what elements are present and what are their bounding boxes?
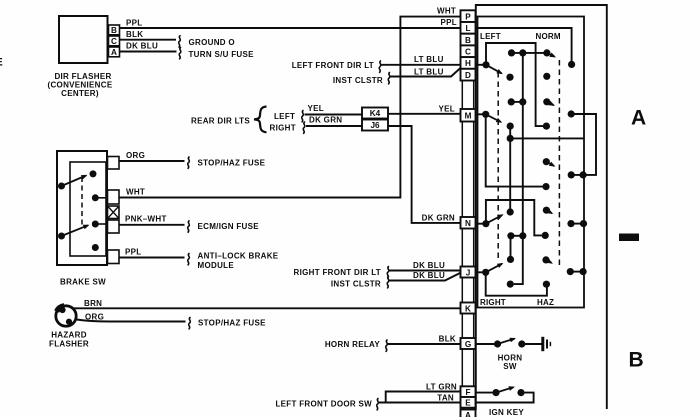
connector pin K [461, 303, 476, 314]
wire PNK-WHT to ecm/ign fuse [119, 224, 185, 226]
svg-text:YEL: YEL [308, 104, 324, 113]
svg-text:CENTER): CENTER) [61, 89, 99, 98]
switch arm haz lower [546, 260, 552, 263]
wire M pivot drop to norm low contact [486, 114, 543, 186]
brake switch lower pivot [58, 233, 65, 240]
label HORN SW [498, 354, 523, 372]
svg-text:J6: J6 [370, 121, 380, 130]
isolated contact norm [543, 73, 550, 80]
svg-text:F: F [465, 388, 470, 397]
squiggle rear left [302, 111, 304, 122]
wire F to ign key switch [476, 392, 493, 394]
squiggle turn fuse [179, 48, 181, 59]
svg-text:PPL: PPL [125, 248, 141, 257]
svg-text:STOP/HAZ FUSE: STOP/HAZ FUSE [198, 319, 266, 328]
wire PPL from brake to anti-lock module [119, 257, 185, 259]
switch arm J [486, 264, 502, 273]
wire LT GRN to connector F with tie riser [386, 392, 461, 403]
svg-text:HAZ: HAZ [537, 298, 554, 307]
wire BLK from pin C to ground squiggle [120, 39, 177, 41]
svg-text:B: B [111, 26, 117, 35]
wire BLK G to horn switch [476, 343, 495, 345]
svg-text:WHT: WHT [437, 7, 456, 16]
squiggle left front dir [379, 61, 381, 72]
svg-text:DK BLU: DK BLU [413, 261, 445, 270]
svg-text:A: A [111, 48, 117, 57]
splice K4 [362, 108, 388, 119]
squiggle ground [179, 36, 181, 47]
svg-text:BRN: BRN [84, 299, 102, 308]
svg-text:INST CLSTR: INST CLSTR [331, 280, 381, 289]
svg-text:ANTI–LOCK BRAKE: ANTI–LOCK BRAKE [198, 252, 279, 261]
svg-text:DK BLU: DK BLU [413, 271, 445, 280]
wire M into switch [476, 113, 486, 115]
svg-text:SW: SW [503, 362, 517, 371]
brake pin cell 1 [108, 157, 120, 170]
svg-text:N: N [465, 219, 471, 228]
wire WHT from brake to connector P riser [119, 17, 461, 198]
pivot mid right [543, 158, 550, 165]
wire ORG from hazard flasher to stop/haz fuse [77, 320, 186, 322]
brake dashed gang link [81, 177, 83, 227]
pivot norm lower [543, 98, 550, 105]
squiggle anti-lock [188, 254, 190, 265]
svg-text:LEFT: LEFT [274, 112, 295, 121]
wire N into switch [476, 223, 486, 225]
svg-text:DK BLU: DK BLU [126, 42, 158, 51]
wire TAN to connector E [379, 402, 461, 404]
ground symbol [543, 337, 551, 351]
svg-text:LT BLU: LT BLU [414, 68, 444, 77]
switch arm norm lower [547, 102, 554, 105]
wire J bottom loop [486, 272, 547, 295]
brake sw outer box [57, 151, 107, 265]
brake contact dot WHT [92, 194, 99, 201]
svg-text:YEL: YEL [439, 105, 455, 114]
brake pin cell 2 [108, 190, 120, 204]
contact dot norm mid [543, 123, 550, 130]
connector pin M [461, 109, 476, 122]
switch arm N [486, 215, 502, 224]
wire DK GRN into J6 [306, 125, 362, 127]
svg-text:K: K [465, 304, 471, 313]
svg-text:WHT: WHT [126, 188, 145, 197]
wire YEL into K4 [305, 114, 363, 116]
dir flasher (convenience center) box [59, 16, 108, 63]
brake contact dot PPL [92, 244, 99, 251]
contact dot right stub [507, 281, 514, 288]
pivot norm top [543, 49, 550, 56]
wire ORG from brake to stop/haz fuse [119, 160, 185, 162]
svg-text:H: H [465, 59, 471, 68]
svg-text:K4: K4 [370, 109, 381, 118]
contact pair haz lower on bus [567, 268, 587, 275]
svg-text:HAZARD: HAZARD [51, 331, 87, 340]
connector pin L [461, 22, 476, 34]
wire DK BLU 2 to connector J [390, 273, 462, 281]
svg-text:LT BLU: LT BLU [414, 55, 444, 64]
dashed gang left column [497, 72, 499, 260]
vertical rung to J contact [510, 236, 512, 260]
svg-text:PPL: PPL [441, 18, 457, 27]
svg-text:NORM: NORM [536, 32, 561, 41]
wire ign key return to E [476, 393, 534, 403]
wire BRN from hazard flasher to connector K [74, 307, 461, 309]
squiggle inst clstr bottom [387, 277, 389, 288]
squiggle stop/haz 2 [189, 318, 191, 329]
svg-text:REAR DIR LTS: REAR DIR LTS [191, 117, 250, 126]
pivot M [482, 111, 489, 118]
svg-text:GROUND O: GROUND O [189, 38, 235, 47]
wire horn sw to ground [525, 343, 542, 345]
stub K to box [476, 307, 478, 309]
contact dot norm top [568, 61, 575, 68]
pin A [109, 47, 120, 57]
connector pin P [461, 10, 476, 22]
switch arm norm top [547, 53, 555, 57]
wire YEL from K4 to connector M [388, 113, 461, 115]
svg-text:ORG: ORG [126, 151, 145, 160]
pivot N [482, 220, 489, 227]
squiggle inst clstr top [388, 73, 390, 84]
svg-text:DK GRN: DK GRN [422, 214, 455, 223]
wire J into switch [476, 271, 486, 273]
svg-text:PPL: PPL [126, 19, 142, 28]
connector pin A (clipped at bottom) [461, 410, 476, 417]
label ANTI-LOCK BRAKE MODULE [198, 252, 279, 271]
svg-text:LEFT: LEFT [480, 32, 501, 41]
connector pin J [461, 267, 476, 278]
svg-text:RIGHT: RIGHT [480, 298, 506, 307]
wire LT BLU 2 to connector H [391, 68, 462, 77]
switch arm M [486, 114, 501, 122]
svg-text:BLK: BLK [439, 335, 456, 344]
pivot haz lower [542, 256, 549, 263]
svg-text:PNK–WHT: PNK–WHT [125, 215, 167, 224]
vertical from M contact to N contact [509, 126, 511, 212]
svg-text:C: C [465, 48, 471, 57]
svg-text:B: B [629, 349, 644, 372]
svg-text:DK GRN: DK GRN [309, 116, 342, 125]
squiggle horn relay [386, 340, 388, 351]
squiggle stop/haz [188, 157, 190, 168]
brake switch arm 1 [62, 176, 87, 187]
inner bus vertical [514, 53, 523, 284]
node junction mid [507, 135, 514, 142]
connector pin B [461, 34, 476, 46]
connector pin N [461, 217, 476, 229]
svg-text:E: E [465, 399, 471, 408]
wire L feed to norm top contact [476, 28, 572, 64]
svg-text:A: A [631, 107, 646, 130]
label DIR FLASHER (CONVENIENCE CENTER) [48, 72, 113, 98]
brake sw inner box [70, 162, 106, 256]
contact dot norm low [542, 183, 549, 190]
splice J6 [362, 120, 388, 131]
horn sw contact left [494, 340, 501, 347]
svg-text:G: G [465, 340, 471, 349]
contact dot N arm [507, 208, 514, 215]
svg-text:ECM/IGN FUSE: ECM/IGN FUSE [198, 222, 260, 231]
svg-text:E: E [0, 57, 3, 69]
contact dot J arm [507, 256, 514, 263]
switch arm haz upper [546, 210, 551, 213]
brake contact dot 2 [92, 221, 99, 228]
svg-text:IGN KEY: IGN KEY [489, 408, 524, 417]
right column rung low [507, 232, 526, 239]
contact dot J loop end [543, 281, 550, 288]
svg-text:RIGHT: RIGHT [270, 124, 296, 133]
contact dot norm lower [568, 110, 575, 117]
svg-text:BRAKE SW: BRAKE SW [60, 278, 106, 287]
svg-text:BLK: BLK [126, 30, 143, 39]
svg-text:ORG: ORG [85, 313, 104, 322]
contact dot haz feed [542, 232, 549, 239]
outer harness rectangle [476, 5, 607, 410]
switch arm H [486, 65, 502, 74]
contact pair haz upper on bus [567, 220, 587, 227]
connector pin H [461, 57, 476, 69]
connector strip rails [462, 11, 473, 417]
svg-text:L: L [465, 24, 470, 33]
squiggle rear right [303, 122, 305, 133]
brace for rear dir lts [254, 107, 267, 133]
pin B [109, 25, 120, 35]
svg-text:LT GRN: LT GRN [426, 383, 457, 392]
brake pin cell 4 [108, 220, 120, 233]
svg-text:D: D [465, 71, 471, 80]
ign key contact left [492, 389, 499, 396]
svg-text:INST CLSTR: INST CLSTR [333, 76, 383, 85]
pin C [109, 36, 120, 46]
brake pin cell 5 [108, 250, 120, 264]
connector pin F [461, 386, 476, 397]
hazard flasher [56, 306, 76, 326]
contact dot M arm [507, 123, 514, 130]
contact dot H arm target [506, 74, 513, 81]
connector pin G [461, 338, 476, 349]
dashed gang right column [558, 60, 560, 268]
wire DK GRN from J6 to connector N [388, 126, 461, 223]
squiggle right front dir [387, 267, 389, 278]
svg-text:TAN: TAN [437, 394, 454, 403]
squiggle ecm [188, 221, 190, 232]
brake contact dot 1 [90, 170, 97, 177]
switch arm mid right [546, 162, 554, 166]
svg-text:STOP/HAZ FUSE: STOP/HAZ FUSE [198, 159, 266, 168]
wire BLK to connector G [388, 343, 461, 345]
wire LT BLU 1 to connector H [382, 64, 461, 66]
wire junction to bus [510, 137, 584, 139]
brake contact WHT stub [95, 197, 107, 199]
ign key contact right [517, 389, 524, 396]
svg-text:TURN S/U FUSE: TURN S/U FUSE [189, 50, 255, 59]
horn sw contact right [518, 340, 525, 347]
svg-text:A: A [465, 411, 471, 417]
pivot J [482, 269, 489, 276]
page dash marker [619, 234, 639, 242]
svg-text:LEFT FRONT DIR LT: LEFT FRONT DIR LT [292, 61, 374, 70]
svg-text:MODULE: MODULE [198, 261, 235, 270]
wire H into switch [476, 64, 487, 66]
left column top rung [508, 49, 544, 56]
wire DK BLU 1 to connector J [390, 270, 461, 272]
connector pin E [461, 397, 476, 408]
brake contact 2 stub [95, 223, 107, 225]
horn sw arm [498, 339, 515, 344]
svg-text:RIGHT FRONT DIR LT: RIGHT FRONT DIR LT [294, 268, 381, 277]
brake switch arm 2 [62, 225, 89, 236]
wire N loop over to haz feed [486, 200, 542, 235]
svg-text:C: C [111, 37, 117, 46]
wire H hook up and over to norm contact [486, 43, 543, 126]
svg-text:FLASHER: FLASHER [49, 340, 89, 349]
brake switch contact upper pivot [58, 183, 65, 190]
node H junction [482, 61, 489, 68]
svg-text:HORN RELAY: HORN RELAY [325, 340, 381, 349]
label HAZARD FLASHER [49, 331, 89, 349]
svg-text:M: M [465, 112, 472, 121]
ign key arm [496, 387, 514, 392]
connector pin D [461, 69, 476, 81]
turn/hazard switch assembly box with P feed bus [478, 17, 585, 308]
svg-text:B: B [465, 36, 471, 45]
contact pair right mid [568, 171, 587, 178]
svg-text:LEFT FRONT DOOR SW: LEFT FRONT DOOR SW [275, 400, 372, 409]
pivot haz upper [543, 207, 550, 214]
stub P to box [476, 16, 478, 18]
left column rung 2 [508, 98, 527, 105]
wire DK BLU from pin A to fuse squiggle [120, 51, 177, 53]
wire PPL from pin B to connector L [120, 27, 461, 29]
wire norm lower contact loop to right pair [571, 114, 596, 175]
connector pin C [461, 45, 476, 57]
svg-text:J: J [466, 268, 471, 277]
svg-text:P: P [465, 12, 471, 21]
squiggle door sw [377, 399, 379, 410]
brake pin cell 3 hatched [108, 206, 120, 219]
